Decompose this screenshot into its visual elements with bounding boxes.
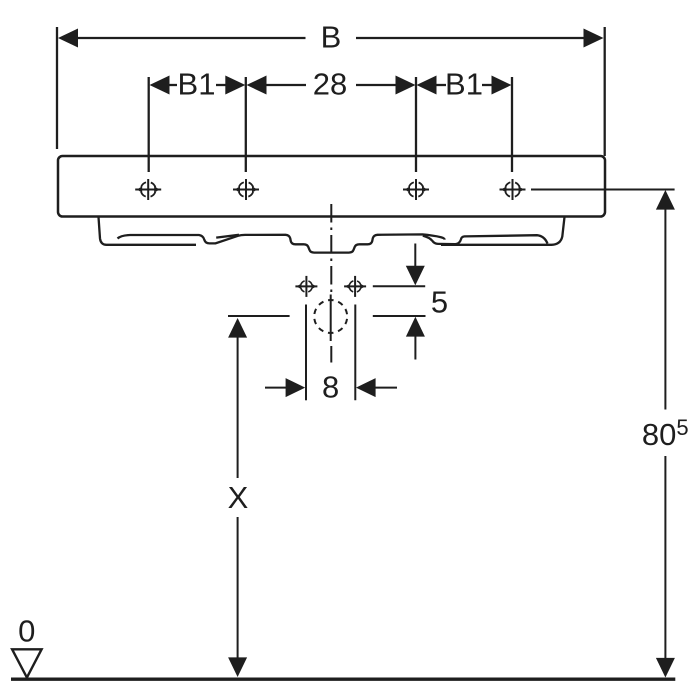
- dimension B arrow left: [58, 29, 78, 48]
- drain dashed circle: [314, 300, 347, 333]
- dimension 8 left arrow head: [286, 378, 306, 397]
- dimension B1 right arrow left: [417, 76, 437, 95]
- dimension B1 right extension line: [511, 77, 513, 172]
- dimension 28 line b: [356, 84, 397, 86]
- dimension 28 line a: [265, 84, 306, 86]
- dimension 80.5 up arrow head: [656, 190, 675, 210]
- fixing point reference line to 80.5 dimension: [531, 189, 675, 191]
- basin underside left dip wedge line: [216, 235, 239, 238]
- floor datum triangle: [12, 649, 41, 677]
- svg-text:5: 5: [431, 285, 448, 320]
- dimension B1 left arrow left: [150, 76, 170, 95]
- dimension 8 left arrow line: [265, 387, 288, 389]
- dimension B1 left line b: [216, 84, 227, 86]
- dimension 5 down arrow line: [414, 244, 416, 269]
- drain fixing symbol right: [344, 276, 366, 297]
- svg-text:28: 28: [313, 67, 347, 102]
- drain circle cross vertical: [330, 295, 332, 342]
- dimension 8 left extension line: [305, 305, 307, 401]
- basin underside contour: [118, 234, 445, 252]
- washbasin slab outline: [58, 156, 605, 217]
- svg-text:B: B: [321, 20, 342, 55]
- dimension 5 lower reference line right: [373, 315, 426, 317]
- dimension B extension line left: [56, 27, 58, 149]
- dimension 5 upper reference line: [373, 285, 425, 287]
- shared extension line 28/B1: [415, 77, 417, 172]
- dimension 80.5 upper line: [664, 208, 666, 410]
- dimension X lower line: [237, 517, 239, 659]
- svg-text:X: X: [228, 480, 249, 515]
- fixing point symbol 2: [233, 179, 259, 200]
- svg-text:0: 0: [18, 614, 35, 649]
- fixing point symbol 4: [500, 179, 526, 200]
- svg-text:8: 8: [322, 370, 339, 405]
- dimension 28 arrow left: [247, 76, 267, 95]
- dimension X up arrow head: [228, 318, 247, 338]
- dimension B1 left extension line: [148, 77, 150, 172]
- dimension 80.5 lower line: [664, 456, 666, 660]
- dimension B line left segment: [76, 37, 306, 39]
- drain fixing symbol left: [295, 276, 317, 297]
- basin underside right apron: [441, 217, 565, 245]
- centerline: [330, 204, 332, 294]
- dimension B1 right line a: [435, 84, 446, 86]
- dimension B extension line right: [604, 27, 606, 156]
- dimension 80.5 down arrow head: [656, 658, 675, 678]
- dimension 5 up arrow head: [406, 317, 425, 337]
- dimension B1 right arrow right: [492, 76, 512, 95]
- dimension B1 right line b: [482, 84, 492, 86]
- dimension X upper line: [237, 336, 239, 478]
- dimension 5 down arrow head: [406, 266, 425, 286]
- dimension 5 up arrow line: [414, 335, 416, 360]
- fixing point symbol 3: [403, 179, 429, 200]
- basin underside left apron: [99, 217, 197, 245]
- svg-text:B1: B1: [445, 67, 483, 102]
- svg-text:B1: B1: [178, 67, 216, 102]
- dimension B arrow right: [584, 29, 604, 48]
- shared extension line B1/28: [245, 77, 247, 172]
- basin underside right dip outline: [423, 235, 548, 244]
- dimension 5 lower reference line left: [228, 315, 290, 317]
- dimension 28 arrow right: [396, 76, 416, 95]
- dimension 8 right arrow line: [374, 387, 397, 389]
- dimension B1 left arrow right: [225, 76, 245, 95]
- dimension 8 right extension line: [354, 305, 356, 401]
- dimension B line right segment: [356, 37, 586, 39]
- dimension 8 right arrow head: [356, 378, 376, 397]
- floor line: [11, 678, 675, 681]
- centerline lower dash: [330, 346, 332, 363]
- dimension X down arrow head: [228, 657, 247, 677]
- fixing point symbol 1: [135, 179, 161, 200]
- dimension B1 left line a: [168, 84, 177, 86]
